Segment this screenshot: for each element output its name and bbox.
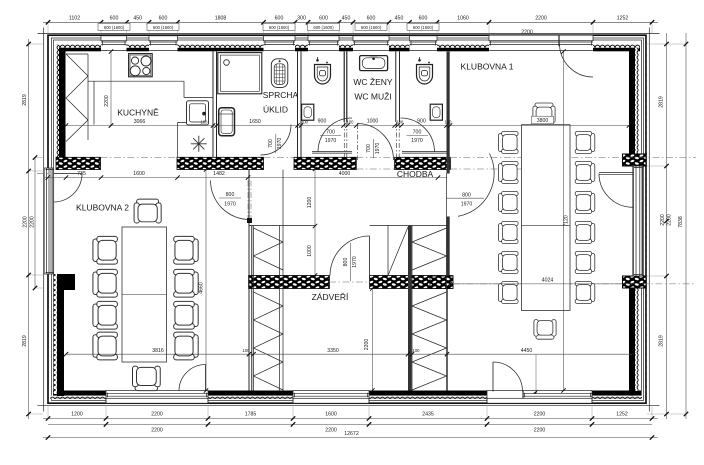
stove bbox=[129, 54, 153, 77]
outermost contour line with corner overshoots bbox=[38, 28, 660, 412]
door right wall klubovna 1 bbox=[599, 174, 633, 208]
axis dash-dot lines bbox=[37, 158, 696, 284]
toilet wc zeny bbox=[315, 57, 331, 84]
bottom wall black masonry bbox=[53, 391, 641, 396]
svg-text:100: 100 bbox=[301, 120, 309, 125]
svg-text:3350: 3350 bbox=[327, 348, 339, 354]
top row 2 window boxes 600 (1600) bbox=[98, 23, 439, 30]
left dimension lines bbox=[29, 39, 35, 419]
zadveri west wardrobe bbox=[254, 170, 284, 391]
zadveri top edge walls bbox=[249, 226, 447, 276]
small window sprcha bbox=[264, 36, 296, 51]
right wall window-jamb hatch blocks bbox=[623, 154, 647, 166]
svg-text:WC ŽENY: WC ŽENY bbox=[353, 77, 393, 87]
svg-text:600 (1600): 600 (1600) bbox=[313, 25, 334, 30]
left wall lower (klubovna 2) bbox=[54, 274, 58, 394]
svg-text:1970: 1970 bbox=[375, 143, 381, 155]
svg-text:800: 800 bbox=[462, 192, 471, 198]
svg-text:2819: 2819 bbox=[659, 96, 665, 108]
svg-text:3800: 3800 bbox=[537, 118, 549, 124]
water heater bbox=[271, 59, 288, 88]
svg-text:1650: 1650 bbox=[249, 119, 261, 125]
svg-text:SPRCHA: SPRCHA bbox=[263, 90, 299, 100]
svg-text:1808: 1808 bbox=[215, 15, 227, 21]
svg-text:600: 600 bbox=[367, 15, 376, 21]
chair klubovna 2 head bottom bbox=[133, 366, 161, 391]
svg-text:1600: 1600 bbox=[325, 412, 337, 418]
washbasin bbox=[360, 56, 388, 71]
chairs klubovna 2 left column bbox=[93, 236, 118, 264]
door leaf arc in french window bbox=[560, 44, 594, 78]
svg-text:735: 735 bbox=[77, 171, 86, 177]
svg-text:2200: 2200 bbox=[151, 412, 163, 418]
right wall lower black bbox=[629, 288, 635, 396]
svg-text:900: 900 bbox=[417, 119, 426, 125]
svg-text:2200: 2200 bbox=[534, 412, 546, 418]
svg-text:2200: 2200 bbox=[667, 214, 673, 226]
bottom french window klubovna 1 with entry door bbox=[487, 391, 592, 404]
svg-text:600 (1600): 600 (1600) bbox=[104, 25, 125, 30]
svg-text:600: 600 bbox=[275, 15, 284, 21]
zadveri east wardrobe bbox=[388, 173, 447, 390]
right dimension lines bbox=[667, 33, 687, 419]
left wall lower pier block bbox=[57, 274, 75, 290]
svg-text:1102: 1102 bbox=[69, 15, 80, 21]
bottom wall insulation scallop bbox=[50, 396, 642, 399]
svg-text:WC MUŽI: WC MUŽI bbox=[354, 92, 391, 102]
svg-text:3066: 3066 bbox=[134, 119, 146, 125]
hand basin left bbox=[302, 104, 314, 120]
svg-text:1252: 1252 bbox=[617, 15, 629, 21]
svg-text:1970: 1970 bbox=[277, 138, 283, 150]
top row 1 witness lines bbox=[48, 24, 652, 34]
facade thin line 3 bbox=[54, 40, 642, 399]
svg-text:2819: 2819 bbox=[22, 94, 28, 106]
door washroom bbox=[357, 124, 394, 161]
svg-text:600: 600 bbox=[419, 15, 428, 21]
svg-text:2200: 2200 bbox=[534, 427, 546, 433]
interior dim line 3 (y=352) bbox=[66, 353, 633, 355]
facade line thick bbox=[48, 35, 646, 403]
door label klubovna 1 800/1970 bbox=[461, 192, 473, 207]
boiler star symbol bbox=[191, 136, 207, 152]
zadveri south hatched band bbox=[249, 276, 453, 289]
svg-text:700: 700 bbox=[326, 130, 335, 136]
svg-text:2200: 2200 bbox=[151, 427, 163, 433]
left wall upper (kitchen block) bbox=[56, 45, 60, 158]
svg-text:7120: 7120 bbox=[563, 215, 569, 227]
svg-text:1000: 1000 bbox=[307, 245, 313, 257]
bottom dimension row 2 bbox=[48, 423, 652, 425]
svg-text:1970: 1970 bbox=[411, 138, 423, 144]
svg-text:KUCHYNĚ: KUCHYNĚ bbox=[117, 107, 159, 117]
svg-text:100: 100 bbox=[396, 119, 404, 124]
kitchen depth dim 2200 bbox=[110, 52, 112, 126]
top wall black masonry bbox=[57, 48, 640, 52]
svg-text:4660: 4660 bbox=[198, 282, 204, 294]
facade thin line 2 bbox=[52, 38, 644, 401]
door wc zeny bbox=[318, 118, 352, 152]
svg-text:700: 700 bbox=[413, 130, 422, 136]
svg-text:3816: 3816 bbox=[152, 348, 164, 354]
chair klubovna 1 head top bbox=[533, 103, 555, 123]
klubovna 2 height dim 4660 bbox=[205, 170, 207, 391]
svg-text:800: 800 bbox=[226, 192, 235, 198]
kitchen west pantry shelving bbox=[66, 54, 88, 142]
svg-text:700: 700 bbox=[366, 144, 372, 153]
svg-text:1060: 1060 bbox=[457, 15, 469, 21]
door label wc zeny 700/1970 bbox=[325, 130, 337, 144]
svg-text:2200: 2200 bbox=[364, 339, 370, 351]
bottom dimension row 1 bbox=[43, 418, 658, 420]
interior dim line 1 (y=125.5) bbox=[66, 125, 629, 127]
svg-text:KLUBOVNA 2: KLUBOVNA 2 bbox=[76, 203, 129, 213]
svg-text:100: 100 bbox=[413, 348, 421, 353]
door label zadveri 800/1970 rotated bbox=[343, 256, 358, 268]
toilet wc muzi bbox=[417, 57, 433, 84]
svg-text:2200: 2200 bbox=[660, 214, 666, 226]
right wall upper black bbox=[629, 48, 635, 154]
chairs klubovna 1 left column bbox=[499, 131, 519, 153]
svg-text:ÚKLID: ÚKLID bbox=[263, 104, 288, 114]
svg-text:1600: 1600 bbox=[133, 171, 145, 177]
svg-text:100: 100 bbox=[201, 120, 209, 125]
partition sprcha/wc zeny bbox=[298, 52, 302, 158]
svg-text:2819: 2819 bbox=[659, 335, 665, 347]
svg-text:1200: 1200 bbox=[71, 412, 83, 418]
svg-text:12672: 12672 bbox=[344, 431, 359, 437]
roof edge dashed line right bbox=[646, 37, 648, 398]
svg-text:600 (1600): 600 (1600) bbox=[361, 25, 382, 30]
bottom dimension row 3 total bbox=[43, 437, 658, 439]
svg-text:4024: 4024 bbox=[542, 277, 554, 283]
svg-text:2200: 2200 bbox=[29, 216, 35, 228]
door label sprcha 700/1970 rotated bbox=[268, 138, 283, 150]
svg-text:600: 600 bbox=[159, 15, 168, 21]
interior dim line 2 (y=177.6) bbox=[44, 177, 447, 179]
door wc muzi bbox=[401, 118, 435, 152]
small window wc zeny bbox=[308, 36, 339, 51]
svg-text:1785: 1785 bbox=[245, 412, 257, 418]
svg-text:700: 700 bbox=[268, 139, 274, 148]
corridor vertical chain 1200/1000 bbox=[314, 169, 316, 276]
svg-text:2200: 2200 bbox=[521, 30, 533, 36]
svg-text:1200: 1200 bbox=[307, 197, 313, 209]
svg-text:600 (1600): 600 (1600) bbox=[413, 25, 434, 30]
svg-text:100: 100 bbox=[347, 119, 355, 124]
svg-text:2435: 2435 bbox=[422, 412, 434, 418]
door klubovna 2 french window bbox=[179, 365, 206, 392]
corridor north wall hatched band bbox=[56, 157, 450, 169]
3800 boxed label klubovna 1 bbox=[532, 116, 554, 124]
bottom window zadveri bbox=[293, 391, 369, 404]
top row 1 tick marks bbox=[46, 20, 654, 24]
klubovna 1 west wall with door opening bbox=[447, 52, 450, 174]
svg-text:600: 600 bbox=[319, 15, 328, 21]
svg-text:450: 450 bbox=[395, 15, 404, 21]
door zadveri south bbox=[330, 236, 370, 276]
cleaning sink vylevka bbox=[219, 108, 235, 136]
top dimension row 1 line bbox=[43, 21, 658, 23]
svg-text:KLUBOVNA 1: KLUBOVNA 1 bbox=[461, 61, 514, 71]
small window kitchen 1 bbox=[101, 36, 127, 51]
klubovna 1 height dim 7120 bbox=[563, 52, 565, 391]
chair klubovna 1 head bottom bbox=[534, 320, 556, 340]
small window kitchen 2 bbox=[149, 36, 178, 51]
door corridor to klubovna 1 bbox=[458, 154, 494, 217]
door sprcha bbox=[261, 125, 292, 156]
chairs klubovna 1 right column bbox=[575, 131, 595, 303]
svg-text:800: 800 bbox=[343, 258, 349, 267]
large french window klubovna 1 bbox=[489, 35, 593, 50]
svg-text:2200: 2200 bbox=[104, 95, 110, 107]
klubovna 2 east wall bbox=[249, 170, 252, 391]
svg-text:2200: 2200 bbox=[23, 216, 29, 228]
svg-text:1970: 1970 bbox=[461, 202, 473, 208]
svg-text:2819: 2819 bbox=[22, 335, 28, 347]
svg-text:600 (1600): 600 (1600) bbox=[269, 25, 290, 30]
door label klubovna 2 800/1970 bbox=[224, 192, 236, 207]
zadveri height dim 2200 bbox=[371, 289, 373, 391]
top row 1 labels bbox=[69, 15, 628, 21]
klubovna 1 width dim 4024 bbox=[450, 283, 633, 285]
kitchen counter lines bbox=[88, 81, 213, 157]
svg-text:1000: 1000 bbox=[367, 119, 379, 125]
right wall window band klubovna 1 bbox=[633, 166, 643, 276]
svg-text:1970: 1970 bbox=[352, 256, 358, 268]
partition kitchen/sprcha bbox=[213, 52, 217, 158]
svg-text:2200: 2200 bbox=[535, 15, 547, 21]
svg-text:600 (1600): 600 (1600) bbox=[153, 25, 174, 30]
small window wc muzi bbox=[410, 36, 438, 51]
svg-text:300: 300 bbox=[297, 15, 306, 21]
shower tray bbox=[218, 53, 262, 94]
bottom window klubovna 2 french bbox=[106, 391, 208, 404]
door zadveri entry bottom bbox=[493, 362, 523, 392]
svg-text:600: 600 bbox=[110, 15, 119, 21]
partition washroom/wc muzi bbox=[396, 52, 400, 123]
svg-text:900: 900 bbox=[318, 119, 327, 125]
partition wc zeny/washroom bbox=[344, 52, 347, 123]
svg-text:ZÁDVEŘÍ: ZÁDVEŘÍ bbox=[312, 292, 349, 302]
svg-text:450: 450 bbox=[342, 15, 351, 21]
hand basin right bbox=[430, 104, 442, 120]
door label washroom 700/1970 rotated bbox=[366, 143, 381, 155]
svg-text:450: 450 bbox=[133, 15, 142, 21]
svg-text:100: 100 bbox=[243, 348, 251, 353]
small window washroom bbox=[353, 36, 389, 51]
chairs klubovna 2 right column bbox=[174, 236, 199, 264]
table klubovna 1 bbox=[522, 125, 571, 311]
left wall window band klubovna 2 bbox=[44, 168, 54, 274]
svg-text:4000: 4000 bbox=[339, 171, 351, 177]
chair klubovna 2 head top bbox=[134, 199, 161, 223]
kitchen sink bbox=[187, 101, 209, 125]
door kitchen to klubovna 2 bbox=[211, 181, 250, 220]
table klubovna 2 bbox=[122, 227, 167, 362]
svg-text:1970: 1970 bbox=[224, 201, 236, 207]
svg-text:1482: 1482 bbox=[213, 171, 225, 177]
svg-text:100: 100 bbox=[445, 119, 453, 124]
svg-text:7838: 7838 bbox=[678, 216, 684, 228]
svg-text:2200: 2200 bbox=[325, 427, 337, 433]
door klubovna 2 west french bbox=[54, 174, 83, 203]
svg-text:1252: 1252 bbox=[616, 412, 628, 418]
top wall insulation scallop band bbox=[56, 44, 640, 48]
door label wc muzi 700/1970 bbox=[411, 130, 423, 144]
svg-text:1970: 1970 bbox=[325, 138, 337, 144]
svg-text:4450: 4450 bbox=[521, 348, 533, 354]
zadveri east shaft wall bbox=[408, 226, 412, 391]
